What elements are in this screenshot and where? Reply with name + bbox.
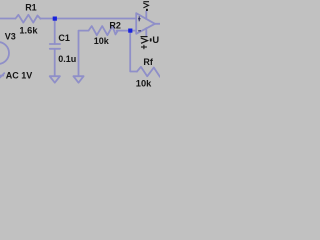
V3 terminal arrow mark — [0, 73, 4, 77]
resistor R2 zigzag — [89, 26, 118, 35]
op-amp top power stub — [145, 11, 147, 19]
op-amp + input marker — [138, 16, 141, 21]
svg-text:V3: V3 — [5, 32, 16, 42]
svg-text:10k: 10k — [94, 36, 110, 46]
wire: junction down to C1 — [54, 19, 56, 45]
capacitor C1 bottom plate — [50, 48, 60, 50]
op-amp U triangle — [136, 13, 155, 34]
svg-text:C1: C1 — [58, 33, 70, 43]
wire: ground branch up to R2 left — [79, 31, 89, 76]
svg-text:R2: R2 — [109, 20, 121, 30]
svg-text:Rf: Rf — [143, 57, 153, 67]
svg-text:0.1u: 0.1u — [58, 54, 76, 64]
background — [0, 0, 160, 90]
net '?' mark (top power pin) — [143, 2, 149, 11]
ground symbol (under R2 branch) — [73, 76, 83, 83]
wire: R2 to op-amp - input — [117, 30, 137, 32]
op-amp - input marker — [138, 30, 141, 32]
node junction dot (R2/feedback/op-amp) — [128, 29, 132, 33]
svg-text:AC 1V: AC 1V — [6, 71, 33, 81]
wire: rail from R1 to op-amp + input — [40, 18, 136, 20]
svg-text:1.6k: 1.6k — [19, 26, 38, 36]
svg-text:U: U — [152, 35, 159, 45]
ground symbol (under C1) — [50, 76, 60, 83]
voltage source V3 circle (clipped at left edge) — [0, 42, 9, 64]
capacitor C1 top plate — [50, 43, 60, 45]
wire: feedback vertical from junction down — [130, 31, 137, 72]
wire: left rail from edge to R1 — [0, 18, 16, 20]
resistor Rf zigzag — [137, 67, 160, 77]
wire: op-amp output to right edge — [155, 23, 160, 25]
svg-text:R1: R1 — [25, 3, 37, 13]
op-amp bottom power stub — [145, 28, 147, 36]
wire: C1 to ground — [54, 49, 56, 76]
'+' supply marker below bottom pin — [141, 45, 147, 49]
resistor R1 zigzag — [16, 15, 41, 23]
net '?' mark (bottom power pin) — [141, 37, 152, 44]
svg-text:10k: 10k — [136, 79, 152, 89]
node junction dot (R1/C1/op-amp) — [53, 17, 57, 21]
